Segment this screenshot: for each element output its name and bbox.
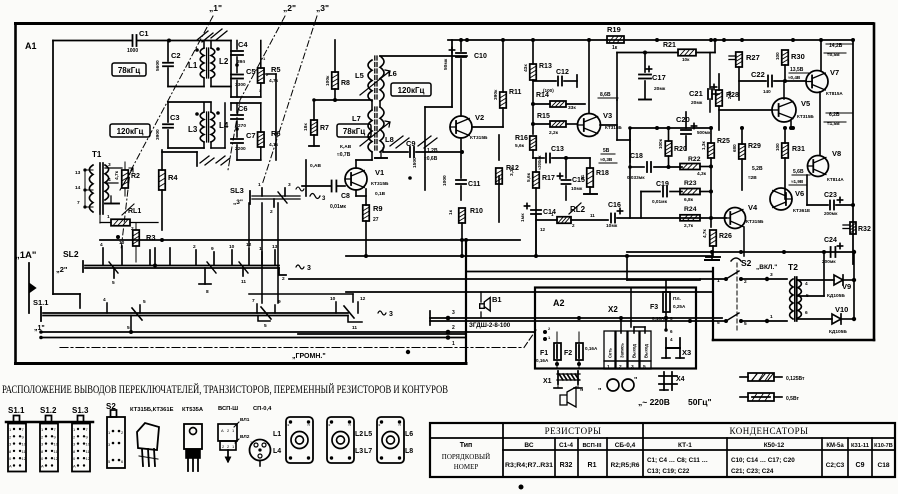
- svg-text:1к: 1к: [448, 209, 454, 215]
- svg-text:12: 12: [22, 456, 27, 461]
- svg-text:0,01мк: 0,01мк: [652, 199, 668, 204]
- svg-text:S2: S2: [741, 258, 752, 268]
- svg-text:КМ-5а: КМ-5а: [826, 443, 844, 449]
- svg-text:5: 5: [264, 323, 267, 329]
- svg-text:9: 9: [211, 246, 214, 252]
- svg-text:В1: В1: [492, 295, 502, 304]
- svg-text:R15: R15: [537, 113, 550, 120]
- svg-text:C20: C20: [676, 115, 690, 124]
- svg-text:V4: V4: [748, 203, 758, 212]
- svg-text:СП-0,4: СП-0,4: [253, 406, 272, 412]
- svg-text:КТ361Е: КТ361Е: [793, 208, 811, 214]
- svg-text:2: 2: [572, 223, 575, 228]
- svg-text:10мк: 10мк: [571, 186, 583, 192]
- svg-text:4: 4: [100, 242, 103, 248]
- svg-text:R8: R8: [341, 80, 350, 87]
- svg-text:140: 140: [763, 89, 771, 94]
- svg-text:2: 2: [744, 279, 747, 285]
- svg-text:5,6к: 5,6к: [515, 143, 525, 149]
- svg-text:L3: L3: [188, 125, 198, 134]
- svg-text:T2: T2: [788, 262, 798, 272]
- svg-text:R25: R25: [717, 138, 730, 145]
- svg-text:к: к: [288, 422, 290, 427]
- svg-text:14: 14: [75, 185, 81, 191]
- svg-text:C6: C6: [238, 104, 248, 113]
- svg-text:100к: 100к: [325, 75, 331, 86]
- svg-text:R27: R27: [746, 53, 760, 62]
- svg-text:4,7к: 4,7к: [114, 170, 120, 180]
- svg-text:„1": „1": [209, 3, 222, 13]
- svg-text:V5: V5: [801, 99, 810, 108]
- svg-text:R19: R19: [607, 25, 621, 34]
- svg-text:1: 1: [107, 214, 110, 220]
- svg-text:R31: R31: [792, 146, 805, 153]
- svg-text:F2: F2: [564, 350, 572, 357]
- svg-text:V1: V1: [375, 168, 384, 177]
- svg-text:КТ535А: КТ535А: [182, 407, 204, 413]
- svg-text:1: 1: [452, 341, 455, 347]
- svg-text:0,01мк: 0,01мк: [330, 204, 346, 210]
- svg-text:≈1,9В: ≈1,9В: [791, 179, 804, 184]
- svg-text:R22: R22: [688, 156, 701, 163]
- svg-text:К,АВ: К,АВ: [340, 144, 352, 150]
- svg-text:R18: R18: [596, 170, 609, 177]
- svg-text:C4: C4: [238, 40, 248, 49]
- svg-text:А2: А2: [553, 298, 565, 308]
- svg-text:V3: V3: [603, 111, 612, 120]
- svg-text:КТ315Б,КТ361Е: КТ315Б,КТ361Е: [130, 407, 174, 413]
- svg-text:5: 5: [112, 280, 115, 286]
- svg-text:н: н: [399, 422, 401, 427]
- svg-text:н: н: [349, 422, 351, 427]
- svg-text:C9: C9: [856, 462, 865, 469]
- svg-text:Выход: Выход: [644, 344, 649, 358]
- svg-text:НОМЕР: НОМЕР: [454, 463, 479, 471]
- svg-text:5600: 5600: [155, 60, 161, 71]
- svg-text:33к: 33к: [568, 105, 576, 111]
- svg-text:7: 7: [77, 200, 80, 206]
- svg-text:12: 12: [54, 456, 59, 461]
- svg-text:≈2В: ≈2В: [748, 175, 757, 181]
- svg-text:C18: C18: [630, 153, 643, 160]
- svg-text:0,16А: 0,16А: [536, 358, 549, 363]
- svg-text:1: 1: [770, 314, 773, 320]
- svg-text:R3;R4;R7..R31: R3;R4;R7..R31: [505, 462, 553, 469]
- svg-text:„~ 220В: „~ 220В: [638, 397, 670, 407]
- svg-text:R21: R21: [663, 42, 676, 49]
- svg-text:4,7к: 4,7к: [702, 229, 707, 238]
- svg-text:5В: 5В: [603, 148, 610, 154]
- svg-text:L5: L5: [355, 71, 364, 80]
- svg-text:C21; C23; C24: C21; C23; C24: [731, 468, 774, 475]
- svg-text:6,8к: 6,8к: [684, 197, 694, 203]
- svg-text:ВЛ2: ВЛ2: [240, 434, 250, 440]
- svg-text:": ": [634, 377, 637, 384]
- svg-text:T1: T1: [92, 150, 102, 159]
- svg-text:V2: V2: [475, 113, 484, 122]
- svg-text:390к: 390к: [493, 89, 499, 100]
- svg-text:L5: L5: [364, 431, 372, 438]
- svg-text:≈0,3В: ≈0,3В: [600, 157, 613, 162]
- svg-text:X2: X2: [608, 305, 618, 314]
- svg-text:10: 10: [54, 442, 59, 447]
- svg-text:„2": „2": [283, 3, 296, 13]
- svg-text:120кГц: 120кГц: [398, 86, 425, 95]
- svg-text:11: 11: [241, 279, 246, 285]
- svg-text:78кГц: 78кГц: [118, 66, 140, 75]
- svg-text:A1: A1: [25, 41, 37, 51]
- svg-text:≈0,7В: ≈0,7В: [337, 152, 351, 158]
- svg-text:43к: 43к: [523, 64, 529, 72]
- svg-text:КТ315Б: КТ315Б: [797, 114, 814, 119]
- svg-text:2: 2: [282, 276, 285, 282]
- svg-text:ВСП-Ш: ВСП-Ш: [218, 406, 238, 412]
- svg-text:0,АВ: 0,АВ: [310, 163, 321, 169]
- svg-text:1000: 1000: [127, 48, 138, 54]
- svg-text:„2": „2": [56, 265, 68, 274]
- svg-text:С1-4: С1-4: [559, 442, 573, 449]
- svg-text:L1: L1: [188, 61, 198, 70]
- svg-text:R23: R23: [684, 180, 697, 187]
- svg-text:V7: V7: [830, 68, 839, 77]
- svg-text:V10: V10: [835, 305, 848, 314]
- svg-text:КД105Б: КД105Б: [827, 293, 845, 299]
- svg-text:Запись: Запись: [620, 343, 625, 358]
- svg-text:4: 4: [103, 297, 106, 303]
- svg-text:RL1: RL1: [128, 208, 141, 215]
- svg-text:SL3: SL3: [230, 186, 244, 195]
- svg-text:А: А: [73, 464, 76, 469]
- svg-text:3: 3: [631, 364, 634, 370]
- svg-text:S1.2: S1.2: [40, 406, 57, 415]
- svg-text:C23: C23: [824, 192, 837, 199]
- svg-text:C11: C11: [468, 181, 481, 188]
- svg-text:2: 2: [193, 244, 196, 250]
- svg-text:„1А": „1А": [15, 250, 36, 261]
- svg-text:C10; C14 … C17; C20: C10; C14 … C17; C20: [731, 457, 795, 464]
- svg-text:27: 27: [373, 217, 379, 223]
- svg-text:R24: R24: [684, 206, 697, 213]
- svg-text:V8: V8: [832, 149, 841, 158]
- svg-text:Пл.: Пл.: [673, 296, 681, 302]
- svg-text:1мк: 1мк: [520, 213, 526, 222]
- svg-text:13: 13: [75, 170, 81, 176]
- svg-text:C18: C18: [877, 462, 889, 469]
- svg-text:12: 12: [246, 242, 252, 248]
- svg-text:R10: R10: [470, 208, 483, 215]
- svg-text:R1: R1: [588, 462, 597, 469]
- svg-text:R14: R14: [536, 92, 549, 99]
- svg-text:R29: R29: [748, 143, 761, 150]
- svg-text:13: 13: [272, 244, 278, 250]
- svg-text:К50-12: К50-12: [764, 442, 785, 449]
- svg-text:L4: L4: [273, 448, 281, 455]
- svg-text:2: 2: [270, 209, 273, 215]
- svg-text:F3: F3: [650, 304, 658, 311]
- svg-text:ВС: ВС: [524, 442, 533, 449]
- svg-text:L3: L3: [355, 448, 363, 455]
- svg-text:6: 6: [670, 329, 673, 334]
- svg-text:C5: C5: [246, 67, 256, 76]
- svg-text:„1": „1": [34, 325, 45, 332]
- svg-text:5: 5: [643, 364, 646, 370]
- svg-text:11: 11: [590, 213, 595, 218]
- svg-text:R2: R2: [131, 173, 140, 180]
- svg-text:50мк: 50мк: [443, 58, 449, 70]
- svg-text:1: 1: [551, 212, 554, 217]
- svg-text:10: 10: [86, 442, 91, 447]
- svg-text:F1: F1: [540, 350, 548, 357]
- svg-text:1к: 1к: [612, 45, 618, 51]
- svg-text:12: 12: [86, 456, 91, 461]
- svg-text:20мк: 20мк: [691, 100, 703, 106]
- svg-text:0,125Вт: 0,125Вт: [786, 376, 805, 382]
- svg-text:3,3к: 3,3к: [509, 166, 515, 176]
- svg-text:4,7к: 4,7к: [269, 78, 279, 84]
- svg-text:3: 3: [307, 265, 311, 272]
- svg-text:2: 2: [452, 325, 455, 331]
- svg-text:L2: L2: [219, 57, 229, 66]
- svg-text:L7: L7: [364, 448, 372, 455]
- svg-text:5: 5: [143, 299, 146, 305]
- svg-text:18к: 18к: [303, 123, 309, 131]
- svg-text:10: 10: [22, 442, 27, 447]
- svg-text:R13: R13: [539, 63, 552, 70]
- svg-text:C7: C7: [246, 131, 256, 140]
- svg-text:5: 5: [744, 321, 747, 327]
- svg-text:10: 10: [229, 244, 235, 250]
- svg-text:Тип: Тип: [460, 442, 473, 449]
- svg-text:L4: L4: [219, 121, 229, 130]
- svg-text:1: 1: [607, 364, 610, 370]
- svg-text:C22: C22: [751, 70, 765, 79]
- svg-text:X3: X3: [682, 348, 691, 357]
- svg-text:V6: V6: [795, 189, 804, 198]
- svg-text:X1: X1: [543, 378, 552, 385]
- svg-text:R9: R9: [373, 204, 383, 213]
- svg-text:3: 3: [108, 162, 111, 168]
- svg-text:КТ815А: КТ815А: [826, 91, 843, 96]
- svg-text:100: 100: [775, 143, 780, 151]
- svg-text:C2: C2: [171, 51, 181, 60]
- svg-text:R11: R11: [509, 89, 522, 96]
- svg-text:1000: 1000: [442, 175, 448, 186]
- svg-text:А: А: [9, 464, 12, 469]
- svg-text:R5: R5: [271, 65, 281, 74]
- svg-text:4: 4: [108, 177, 111, 183]
- svg-text:C13; C19; C22: C13; C19; C22: [647, 468, 690, 475]
- svg-text:S1.1: S1.1: [33, 298, 48, 307]
- svg-text:(100): (100): [543, 88, 554, 93]
- svg-text:0,16А: 0,16А: [585, 346, 598, 351]
- svg-text:12: 12: [540, 227, 546, 232]
- svg-text:„ГРОМН.": „ГРОМН.": [292, 353, 326, 360]
- svg-text:R26: R26: [719, 233, 732, 240]
- svg-text:R30: R30: [791, 52, 805, 61]
- svg-text:10: 10: [119, 240, 125, 246]
- svg-text:2,7к: 2,7к: [684, 223, 694, 229]
- svg-text:Сеть: Сеть: [608, 348, 613, 358]
- svg-text:100: 100: [775, 52, 780, 60]
- svg-text:3: 3: [389, 311, 393, 318]
- svg-text:3: 3: [452, 310, 455, 316]
- svg-text:51: 51: [580, 174, 586, 180]
- svg-text:≈0,6В: ≈0,6В: [424, 156, 438, 162]
- svg-text:СБ-0,4: СБ-0,4: [615, 442, 636, 449]
- svg-text:К10-7В: К10-7В: [874, 443, 893, 449]
- svg-text:8: 8: [206, 289, 209, 295]
- svg-text:10мк: 10мк: [606, 223, 618, 229]
- svg-text:А: А: [41, 464, 44, 469]
- svg-text:S1.3: S1.3: [72, 406, 89, 415]
- svg-text:C2;C3: C2;C3: [826, 462, 845, 469]
- svg-text:200мк: 200мк: [824, 211, 838, 216]
- svg-text:2,2к: 2,2к: [727, 90, 732, 99]
- svg-text:C3: C3: [170, 113, 180, 122]
- svg-text:C16: C16: [608, 202, 621, 209]
- svg-text:РЕЗИСТОРЫ: РЕЗИСТОРЫ: [545, 426, 602, 436]
- svg-text:1: 1: [259, 246, 262, 252]
- svg-text:C21: C21: [689, 89, 703, 98]
- svg-text:L7: L7: [352, 114, 361, 123]
- svg-text:L2: L2: [355, 431, 363, 438]
- svg-text:2,2к: 2,2к: [549, 130, 559, 136]
- svg-text:5,2В: 5,2В: [752, 166, 763, 172]
- svg-text:КТ-1: КТ-1: [678, 442, 692, 449]
- svg-text:0,1В: 0,1В: [375, 191, 386, 197]
- svg-text:8,6В: 8,6В: [600, 92, 611, 98]
- svg-text:≈0,4В: ≈0,4В: [788, 75, 801, 80]
- svg-text:R16: R16: [515, 135, 528, 142]
- svg-text:КТ315Б: КТ315Б: [470, 135, 488, 141]
- svg-text:10к: 10к: [682, 57, 690, 62]
- svg-text:к: к: [379, 422, 381, 427]
- svg-text:„ВКЛ.": „ВКЛ.": [756, 264, 777, 271]
- svg-text:ЗГДШ-2-8-100: ЗГДШ-2-8-100: [469, 322, 511, 329]
- svg-text:3: 3: [770, 272, 773, 278]
- svg-text:10: 10: [330, 296, 336, 302]
- svg-text:3900: 3900: [155, 129, 161, 140]
- svg-text:C14: C14: [543, 209, 556, 216]
- svg-text:L6: L6: [405, 431, 413, 438]
- svg-text:7: 7: [252, 298, 255, 304]
- svg-text:„3": „3": [233, 199, 243, 206]
- svg-text:120кГц: 120кГц: [117, 127, 144, 136]
- svg-text:R32: R32: [858, 226, 871, 233]
- svg-text:C24: C24: [824, 237, 837, 244]
- svg-text:R4: R4: [168, 173, 178, 182]
- svg-text:100к: 100к: [658, 138, 663, 149]
- svg-text:4: 4: [805, 281, 808, 287]
- svg-text:11: 11: [352, 325, 357, 331]
- svg-text:КОНДЕНСАТОРЫ: КОНДЕНСАТОРЫ: [730, 426, 809, 436]
- svg-text:РАСПОЛОЖЕНИЕ ВЫВОДОВ ПЕРЕКЛЮЧА: РАСПОЛОЖЕНИЕ ВЫВОДОВ ПЕРЕКЛЮЧАТЕЛЕЙ, ТРА…: [2, 382, 448, 396]
- svg-text:3: 3: [288, 182, 291, 188]
- svg-text:КТ315Б: КТ315Б: [371, 181, 389, 187]
- svg-text:R20: R20: [674, 146, 687, 153]
- svg-text:К31-11: К31-11: [851, 443, 870, 449]
- svg-text:": ": [580, 389, 583, 396]
- svg-text:5,6В: 5,6В: [793, 169, 804, 175]
- svg-text:2: 2: [619, 364, 622, 370]
- svg-text:КТ814А: КТ814А: [827, 177, 844, 182]
- svg-text:L8: L8: [385, 135, 394, 144]
- svg-text:SL2: SL2: [63, 249, 79, 259]
- svg-text:L1: L1: [273, 431, 281, 438]
- svg-text:1500: 1500: [412, 157, 418, 168]
- svg-text:R17: R17: [542, 175, 555, 182]
- svg-text:C8: C8: [341, 193, 350, 200]
- svg-text:ВСП-III: ВСП-III: [582, 443, 601, 449]
- svg-text:4,3к: 4,3к: [697, 171, 707, 177]
- svg-text:9: 9: [278, 299, 281, 305]
- svg-text:C13: C13: [551, 146, 564, 153]
- svg-text:КД105Б: КД105Б: [829, 329, 847, 335]
- svg-text:50Гц": 50Гц": [688, 397, 712, 407]
- svg-text:Выход: Выход: [632, 344, 637, 358]
- svg-text:L8: L8: [405, 448, 413, 455]
- svg-text:н: н: [308, 422, 310, 427]
- svg-text:12: 12: [360, 296, 366, 302]
- svg-text:ВЛ1: ВЛ1: [240, 417, 250, 423]
- svg-text:1: 1: [258, 182, 261, 188]
- svg-text:5: 5: [127, 325, 130, 331]
- svg-text:C17: C17: [652, 73, 666, 82]
- svg-text:0,25А: 0,25А: [673, 304, 686, 309]
- svg-text:500мк: 500мк: [697, 130, 711, 135]
- svg-text:R2;R5;R6: R2;R5;R6: [611, 462, 640, 469]
- svg-text:C10: C10: [474, 53, 487, 60]
- svg-text:C1; C4 … C8; C11 …: C1; C4 … C8; C11 …: [647, 457, 708, 464]
- svg-text:4: 4: [670, 337, 673, 342]
- svg-text:C1: C1: [139, 29, 149, 38]
- svg-text:1,2В: 1,2В: [427, 148, 438, 154]
- svg-text:ПОРЯДКОВЫЙ: ПОРЯДКОВЫЙ: [442, 453, 490, 461]
- svg-text:78кГц: 78кГц: [343, 127, 365, 136]
- svg-text:C12: C12: [556, 69, 569, 76]
- svg-text:13,5В: 13,5В: [790, 67, 804, 73]
- svg-text:≈300мк: ≈300мк: [537, 155, 542, 170]
- svg-text:20мк: 20мк: [654, 86, 666, 92]
- svg-text:0,033мк: 0,033мк: [627, 175, 645, 180]
- svg-text:R32: R32: [560, 462, 573, 469]
- svg-text:S1.1: S1.1: [8, 406, 25, 415]
- svg-text:4,7к: 4,7к: [269, 142, 279, 148]
- svg-text:6: 6: [805, 310, 808, 316]
- svg-text:270: 270: [238, 123, 246, 129]
- svg-text:X4: X4: [676, 376, 685, 383]
- svg-text:R7: R7: [320, 125, 329, 132]
- svg-text:1,3к: 1,3к: [701, 141, 706, 150]
- svg-text:0,5Вт: 0,5Вт: [786, 396, 799, 402]
- svg-text:5,6к: 5,6к: [526, 172, 532, 182]
- svg-text:к: к: [329, 422, 331, 427]
- svg-text:А: А: [221, 428, 224, 433]
- svg-text:КТ315Б: КТ315Б: [746, 219, 764, 225]
- svg-text:680: 680: [732, 144, 737, 152]
- svg-text:": ": [598, 388, 601, 395]
- svg-text:„3": „3": [316, 3, 329, 13]
